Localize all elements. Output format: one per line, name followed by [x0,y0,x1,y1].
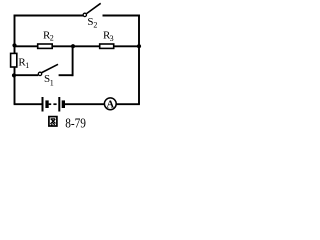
svg-text:2: 2 [50,34,54,43]
caption character tu (figure) [49,117,57,126]
wire S1 branch left [15,74,39,76]
wire ammeter to right [116,103,140,105]
resistor R2 [38,29,54,48]
switch S2 [83,3,101,29]
battery cell 2 long plate [58,97,60,112]
ammeter A [104,98,116,111]
battery cell 1 long plate [42,97,44,112]
node junction right middle [137,44,141,48]
battery cell 1 short plate [45,100,48,108]
svg-text:3: 3 [110,34,114,43]
wire left vertical [14,15,16,105]
node junction left S1 branch [12,73,16,77]
wire S1 branch vertical [72,46,74,76]
svg-text:1: 1 [25,61,29,70]
wire battery to ammeter [65,103,105,105]
wire battery link stub [49,103,52,105]
svg-text:2: 2 [93,21,97,30]
svg-text:8-79: 8-79 [65,116,86,131]
wire S1 branch right [59,74,73,76]
resistor R1 [11,53,30,70]
wire bottom row left [14,103,42,105]
resistor R3 [100,30,114,49]
wire top segment left [14,15,83,17]
switch S1 [38,64,58,87]
node junction middle (S1 branch top) [71,44,75,48]
battery cell 2 short plate [62,100,65,108]
wire middle row [15,45,140,47]
node junction left middle [12,43,16,47]
wire top segment right [103,15,140,17]
wire battery link dash [53,103,56,105]
wire right vertical [138,15,140,105]
svg-text:A: A [107,100,115,111]
svg-text:1: 1 [50,78,54,87]
